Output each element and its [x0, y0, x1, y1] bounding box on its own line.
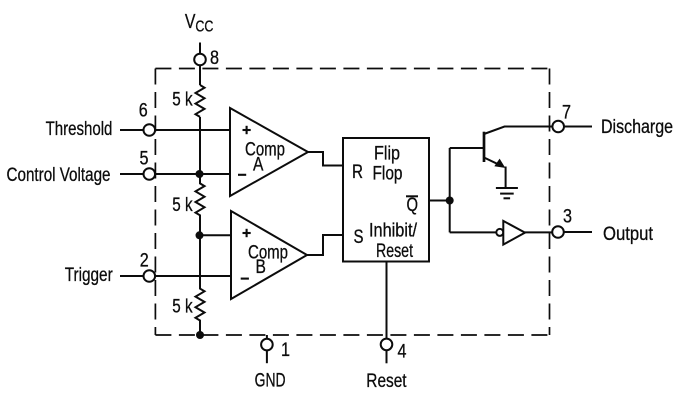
svg-text:5: 5: [140, 148, 149, 169]
svg-text:Trigger: Trigger: [65, 264, 113, 286]
svg-text:5 k: 5 k: [172, 90, 193, 111]
svg-text:Flip: Flip: [374, 143, 400, 165]
svg-text:3: 3: [563, 207, 572, 228]
svg-text:Reset: Reset: [376, 240, 413, 262]
svg-text:Comp: Comp: [248, 241, 288, 263]
svg-text:R: R: [352, 161, 363, 183]
svg-text:Comp: Comp: [245, 139, 285, 161]
svg-text:5 k: 5 k: [172, 297, 193, 318]
svg-text:6: 6: [139, 101, 148, 122]
svg-text:V: V: [185, 10, 196, 33]
svg-text:Discharge: Discharge: [601, 116, 673, 138]
svg-text:5 k: 5 k: [172, 195, 193, 216]
svg-text:Control Voltage: Control Voltage: [7, 164, 111, 186]
svg-text:Q: Q: [407, 194, 419, 216]
svg-text:Inhibit/: Inhibit/: [369, 220, 418, 242]
svg-text:Output: Output: [603, 223, 654, 245]
svg-text:Flop: Flop: [373, 163, 403, 185]
svg-text:S: S: [354, 226, 364, 248]
svg-text:8: 8: [210, 48, 219, 69]
svg-text:Threshold: Threshold: [46, 118, 113, 140]
svg-text:A: A: [253, 154, 263, 176]
svg-text:CC: CC: [195, 18, 213, 35]
svg-text:1: 1: [281, 340, 290, 361]
svg-text:GND: GND: [255, 369, 286, 391]
svg-text:Reset: Reset: [366, 370, 407, 392]
svg-text:4: 4: [398, 342, 407, 363]
svg-text:B: B: [256, 256, 266, 278]
svg-text:2: 2: [140, 251, 149, 272]
svg-text:7: 7: [562, 102, 571, 123]
